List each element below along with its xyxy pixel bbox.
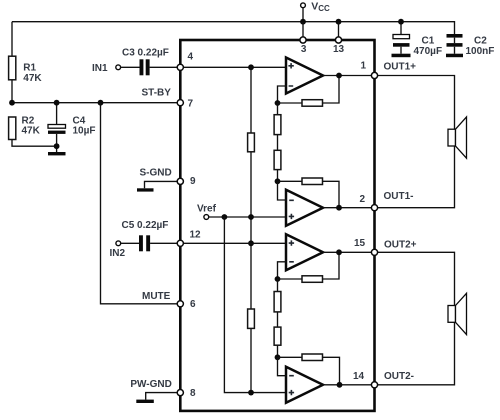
junction amp1 out xyxy=(336,73,342,79)
ground S-GND xyxy=(137,188,154,191)
wire S-GND xyxy=(145,181,181,188)
wire amp3 out xyxy=(323,251,375,253)
junction amp3 fb xyxy=(275,276,281,282)
svg-text:Vref: Vref xyxy=(197,204,217,215)
wire amp2 out xyxy=(323,207,375,209)
VCC terminal xyxy=(301,3,306,8)
wire R1 bottom xyxy=(11,80,13,103)
junction C1 top xyxy=(398,19,404,25)
svg-text:OUT2-: OUT2- xyxy=(384,371,414,382)
svg-text:1: 1 xyxy=(361,60,367,71)
svg-text:2: 2 xyxy=(360,194,366,205)
junction amp2 fb xyxy=(275,178,281,184)
pin 3 xyxy=(300,37,306,43)
wire Vref drop to amp4 + xyxy=(224,217,287,393)
IC box U1 xyxy=(180,40,374,411)
Vref terminal xyxy=(204,215,209,220)
resistor fb4 xyxy=(302,354,323,361)
svg-text:4: 4 xyxy=(188,52,194,63)
wire OUT2- to speaker xyxy=(375,322,455,385)
wire amp4 - input xyxy=(278,357,288,375)
junction chain at IN2 line xyxy=(248,240,254,246)
wire R2 bottom xyxy=(12,140,57,147)
resistor R2 xyxy=(9,117,16,140)
svg-text:13: 13 xyxy=(333,44,345,55)
wire VCC stem xyxy=(302,8,304,22)
svg-text:15: 15 xyxy=(354,238,366,249)
wire pin3 drop xyxy=(302,22,304,40)
wire Vref line xyxy=(209,216,287,218)
speaker LS1 xyxy=(448,129,456,146)
wire ladder bottom xyxy=(277,279,279,357)
wire amp2 fb left xyxy=(278,180,303,182)
capacitor C1 xyxy=(400,22,402,35)
resistor ladder 2a xyxy=(274,292,281,312)
svg-text:47K: 47K xyxy=(22,125,41,136)
svg-text:PW-GND: PW-GND xyxy=(130,379,171,390)
svg-text:IN2: IN2 xyxy=(110,248,126,259)
wire OUT2+ to speaker xyxy=(375,252,455,305)
junction MUTE drop on ST-BY xyxy=(98,100,104,106)
svg-text:6: 6 xyxy=(190,299,196,310)
pin 13 xyxy=(335,37,341,43)
svg-text:C2: C2 xyxy=(474,35,487,46)
IN2 terminal xyxy=(116,241,121,246)
wire amp1 fb right xyxy=(323,76,340,104)
svg-text:IN1: IN1 xyxy=(92,63,108,74)
svg-text:MUTE: MUTE xyxy=(142,291,171,302)
ground C1 xyxy=(392,54,411,58)
resistor ladder 2b xyxy=(274,327,281,345)
op-amp U1B xyxy=(286,190,323,226)
wire ladder top xyxy=(277,103,279,181)
capacitor C3 xyxy=(140,59,144,75)
capacitor C5 xyxy=(139,235,143,251)
junction pin13 drop xyxy=(336,19,342,25)
pin 6 xyxy=(177,301,183,307)
op-amp U1A xyxy=(286,58,323,94)
junction amp4 fb xyxy=(275,354,281,360)
resistor fb3 xyxy=(302,276,323,283)
wire C5 to pin12 xyxy=(150,242,180,244)
wire amp1 fb left xyxy=(278,102,303,104)
wire amp2 fb right xyxy=(323,181,340,207)
junction C4 bottom xyxy=(54,143,60,149)
wire amp4 fb right xyxy=(323,357,340,385)
resistor chain upper xyxy=(248,133,255,152)
svg-text:C1: C1 xyxy=(422,35,435,46)
pin 12 xyxy=(177,240,183,246)
svg-text:10µF: 10µF xyxy=(73,125,96,136)
svg-text:47K: 47K xyxy=(23,73,42,84)
resistor ladder 1a xyxy=(274,115,281,135)
speaker LS2 xyxy=(448,306,456,323)
svg-text:C5 0.22µF: C5 0.22µF xyxy=(122,220,169,231)
svg-text:100nF: 100nF xyxy=(466,46,495,57)
ground C4 xyxy=(48,152,66,155)
svg-text:OUT2+: OUT2+ xyxy=(384,239,417,250)
wire OUT1+ to speaker xyxy=(375,76,455,130)
svg-text:7: 7 xyxy=(188,99,194,110)
wire pin12 to amp3 + xyxy=(180,242,287,244)
junction chain top xyxy=(248,64,254,70)
IN1 terminal xyxy=(116,65,121,70)
svg-text:S-GND: S-GND xyxy=(140,168,172,179)
svg-text:OUT1-: OUT1- xyxy=(384,191,414,202)
junction Vref drop xyxy=(222,214,228,220)
svg-text:R1: R1 xyxy=(23,63,36,74)
junction amp2 out xyxy=(336,205,342,211)
junction amp3 out xyxy=(336,249,342,255)
wire amp1 - input xyxy=(278,86,288,103)
svg-text:14: 14 xyxy=(353,371,365,382)
resistor fb1 xyxy=(302,100,323,107)
resistor ladder 1b xyxy=(274,150,281,169)
svg-text:9: 9 xyxy=(190,176,196,187)
wire left rail top xyxy=(11,22,13,57)
wire pin13 drop xyxy=(338,22,340,40)
ground PW-GND xyxy=(136,400,154,403)
capacitor C2 xyxy=(447,34,463,38)
svg-text:ST-BY: ST-BY xyxy=(142,87,172,98)
pin 1 xyxy=(371,72,377,78)
pin 8 xyxy=(177,390,183,396)
wire PW-GND xyxy=(146,393,181,400)
pin 15 xyxy=(371,249,377,255)
wire IN2 to C5 xyxy=(121,242,139,244)
wire pin4 to amp1 + xyxy=(180,66,287,68)
svg-text:12: 12 xyxy=(190,229,202,240)
op-amp U1C xyxy=(286,234,323,270)
resistor chain lower xyxy=(248,309,255,328)
wire amp4 fb left xyxy=(278,356,303,358)
wire amp1 out xyxy=(323,75,375,77)
svg-text:OUT1+: OUT1+ xyxy=(384,62,417,73)
junction amp4 out xyxy=(337,382,343,388)
pin 7 xyxy=(177,100,183,106)
pin 9 xyxy=(177,178,183,184)
wire chain upper xyxy=(250,67,252,392)
wire amp4 out xyxy=(323,384,375,386)
pin 2 xyxy=(371,205,377,211)
junction left rail ST-BY xyxy=(9,100,15,106)
wire amp3 - input xyxy=(278,262,288,279)
wire amp3 fb right xyxy=(323,252,340,279)
op-amp U1D xyxy=(286,367,323,403)
wire IN1 to C3 xyxy=(121,66,140,68)
svg-text:3: 3 xyxy=(301,44,307,55)
pin 4 xyxy=(177,64,183,70)
wire OUT1- to speaker xyxy=(375,146,455,208)
junction chain at Vref xyxy=(248,214,254,220)
wire top VCC rail xyxy=(12,22,455,35)
resistor R1 xyxy=(9,56,16,80)
resistor fb2 xyxy=(302,178,323,185)
wire C3 to pin4 xyxy=(150,66,181,68)
pin 14 xyxy=(371,382,377,388)
wire amp2 - input xyxy=(278,181,288,200)
junction amp1 fb xyxy=(275,100,281,106)
ground C2 xyxy=(446,54,463,58)
capacitor C4 xyxy=(56,103,58,125)
node ST-BY rail xyxy=(12,102,180,104)
svg-text:8: 8 xyxy=(190,388,196,399)
wire amp3 fb left xyxy=(278,278,303,280)
junction chain bottom xyxy=(248,390,254,396)
svg-text:C3 0.22µF: C3 0.22µF xyxy=(122,47,169,58)
wire MUTE drop xyxy=(101,103,181,304)
junction VCC on rail xyxy=(300,19,306,25)
svg-text:470µF: 470µF xyxy=(414,46,443,57)
junction C4 top xyxy=(54,100,60,106)
